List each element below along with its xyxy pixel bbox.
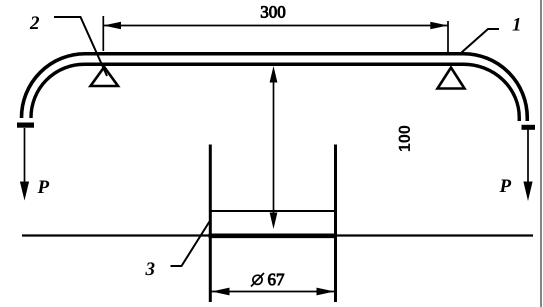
dimension text 300: [261, 6, 285, 17]
dimension 300: right arrowhead: [430, 22, 448, 30]
vertical dimension: bottom arrowhead: [270, 213, 278, 230]
left force arrowhead: [20, 182, 29, 201]
channel inner top line: [210, 210, 335, 212]
right support triangle: [438, 68, 465, 89]
vertical dimension arrow (height 100) wire: [273, 70, 275, 225]
leader line for label 1: [462, 29, 500, 53]
right end cap: [522, 125, 536, 130]
dimension 67: left arrowhead: [212, 288, 230, 296]
channel thick bottom line: [209, 234, 338, 239]
right force arrow P (wire): [527, 130, 529, 188]
left force arrow P (wire): [24, 128, 26, 186]
label 2: [30, 16, 39, 29]
label P right: [499, 180, 511, 192]
left support triangle: [91, 67, 119, 86]
dimension text 100 (rotated): [399, 126, 410, 151]
vertical dimension: top arrowhead: [270, 66, 278, 83]
left end cap: [17, 123, 34, 128]
label 3: [145, 262, 154, 275]
ground baseline: [22, 234, 533, 236]
channel right wall: [334, 145, 337, 303]
leader line for label 2: [54, 17, 107, 76]
leader line for label 3: [171, 222, 210, 267]
dimension 300: right extension line: [447, 21, 449, 54]
dimension diameter 67: dimension line: [212, 291, 335, 293]
right force arrowhead: [523, 182, 532, 202]
channel left wall: [209, 145, 212, 303]
dimension text diameter 67: [253, 275, 262, 284]
dimension 300: left extension line: [102, 16, 104, 51]
label P left: [37, 181, 49, 193]
beam top outline (curved bar, outer line): [22, 54, 528, 121]
beam bottom outline (curved bar, inner line): [31, 64, 519, 121]
dimension 67: right arrowhead: [317, 288, 335, 296]
right page border line: [540, 0, 542, 307]
label 1: [512, 18, 519, 31]
dimension 300: left arrowhead: [103, 22, 121, 30]
dimension 300: dimension line: [103, 25, 448, 27]
